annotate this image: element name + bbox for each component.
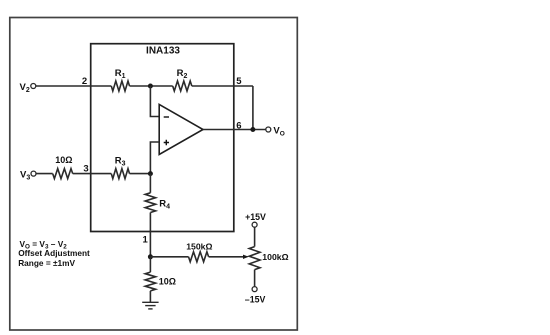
svg-text:Offset Adjustment: Offset Adjustment xyxy=(18,248,90,258)
border frame xyxy=(10,18,298,331)
wire 10ohm to ground xyxy=(149,291,151,302)
svg-text:2: 2 xyxy=(82,76,87,87)
wire node B to R4 xyxy=(149,174,151,193)
wire V3 to 10ohm xyxy=(36,173,53,175)
resistor R2 xyxy=(173,81,192,91)
terminal Vo circle xyxy=(266,127,271,132)
wire V2 to R1 xyxy=(36,85,112,87)
svg-text:3: 3 xyxy=(83,164,88,175)
wire R4 to pin 1 and node C xyxy=(149,213,151,257)
wire 150k to wiper arrow xyxy=(209,256,244,258)
node C junction dot (offset adjust node) xyxy=(148,254,153,259)
svg-text:10Ω: 10Ω xyxy=(55,155,72,165)
op-amp minus sign xyxy=(164,116,169,118)
feedback wire down to output node xyxy=(252,86,254,130)
wire R3 to node B xyxy=(130,173,151,175)
svg-text:100kΩ: 100kΩ xyxy=(262,252,288,262)
wire pot to -15V xyxy=(254,270,256,287)
potentiometer 100k body xyxy=(249,247,260,270)
svg-text:5: 5 xyxy=(236,76,242,87)
terminal -15V circle xyxy=(252,287,257,292)
ground symbol xyxy=(142,302,158,309)
resistor 10 ohm (to ground) xyxy=(145,272,155,291)
wire 10ohm to R3 xyxy=(73,173,112,175)
wire node B to non-inverting input xyxy=(150,142,159,174)
output node junction dot xyxy=(250,127,255,132)
svg-text:Range = ±1mV: Range = ±1mV xyxy=(18,258,75,268)
wire node C to 150k xyxy=(150,256,188,258)
svg-text:+15V: +15V xyxy=(245,212,266,222)
op-amp U1 triangle xyxy=(159,104,203,154)
wiper arrow head xyxy=(243,255,249,259)
svg-text:–15V: –15V xyxy=(245,294,266,304)
svg-text:1: 1 xyxy=(143,234,149,245)
wire +15V to pot xyxy=(254,227,256,246)
resistor 10 ohm (series input) xyxy=(53,169,73,179)
wire R1 to node A xyxy=(130,85,173,87)
svg-text:INA133: INA133 xyxy=(146,46,180,57)
IC boundary box U1 INA133 xyxy=(91,44,234,232)
op-amp plus sign xyxy=(164,140,169,145)
resistor 150k xyxy=(189,252,209,262)
svg-text:10Ω: 10Ω xyxy=(159,276,176,286)
svg-text:6: 6 xyxy=(236,121,241,132)
node A junction dot (R1/R2/inverting input) xyxy=(148,84,153,89)
node B junction dot (R3/R4/non-inverting input) xyxy=(148,171,153,176)
resistor R4 xyxy=(145,193,155,213)
resistor R3 xyxy=(111,169,129,179)
wire op-amp output to terminal Vo xyxy=(203,129,266,131)
wire R2 to pin 5 and feedback corner xyxy=(192,85,253,87)
svg-text:150kΩ: 150kΩ xyxy=(186,241,212,251)
resistor R1 xyxy=(111,81,129,91)
wire node C to 10ohm xyxy=(149,257,151,272)
terminal +15V circle xyxy=(252,222,257,227)
wire node A to inverting input xyxy=(150,86,159,117)
